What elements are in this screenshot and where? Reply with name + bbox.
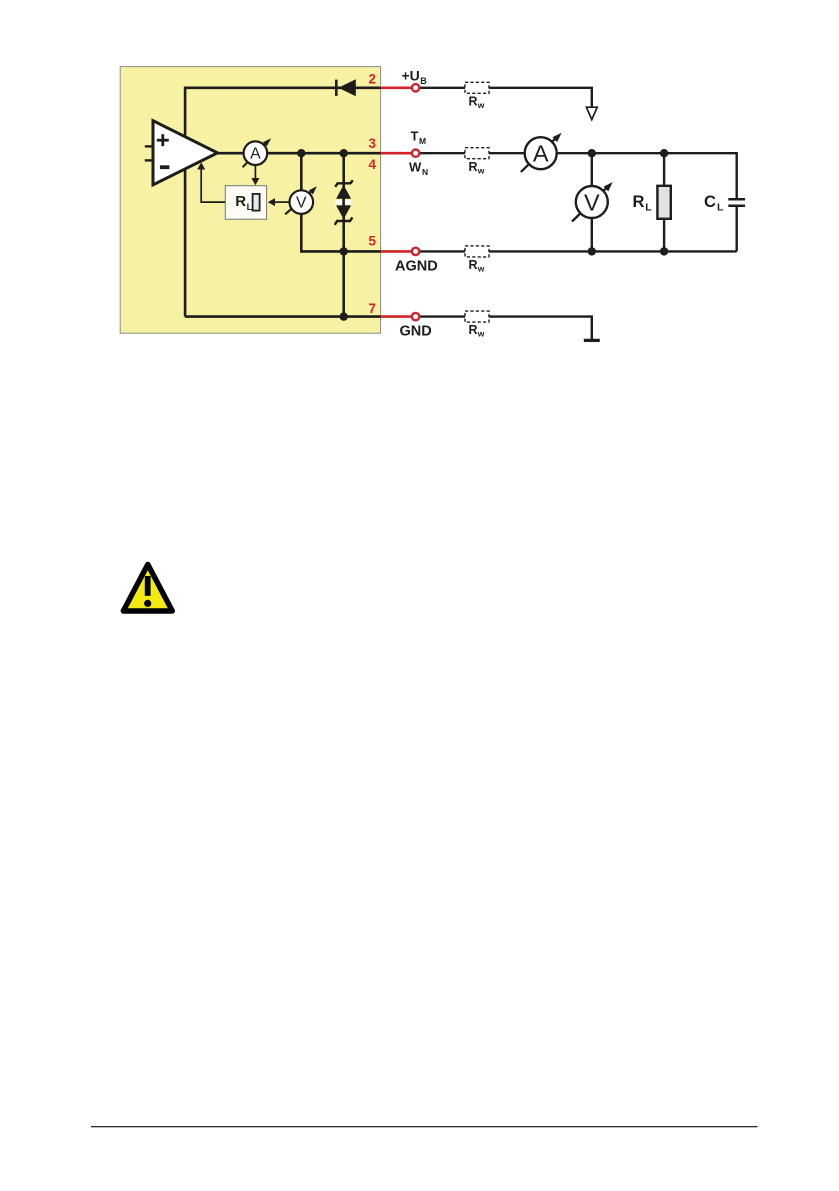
svg-text:R: R [469, 94, 478, 108]
svg-text:W: W [409, 160, 422, 175]
svg-text:A: A [533, 141, 549, 167]
svg-text:N: N [422, 167, 428, 177]
svg-text:GND: GND [400, 324, 432, 340]
svg-text:T: T [411, 129, 419, 144]
svg-text:+U: +U [402, 68, 420, 84]
svg-text:M: M [419, 136, 426, 146]
svg-text:V: V [296, 195, 307, 212]
svg-text:R: R [633, 193, 645, 211]
svg-text:R: R [235, 193, 246, 210]
svg-text:4: 4 [368, 157, 376, 172]
svg-text:2: 2 [368, 72, 376, 87]
svg-text:C: C [704, 193, 716, 211]
svg-text:V: V [584, 189, 600, 215]
svg-text:L: L [645, 202, 652, 214]
svg-text:w: w [477, 100, 485, 110]
svg-text:7: 7 [368, 301, 376, 316]
svg-text:R: R [469, 160, 478, 174]
svg-text:AGND: AGND [395, 259, 438, 275]
svg-text:R: R [469, 258, 478, 272]
svg-text:w: w [477, 264, 485, 274]
svg-text:5: 5 [368, 234, 376, 249]
svg-text:3: 3 [368, 136, 376, 151]
svg-text:B: B [420, 76, 427, 86]
svg-text:A: A [250, 146, 261, 163]
svg-text:w: w [477, 329, 485, 339]
svg-text:w: w [477, 165, 485, 175]
svg-text:R: R [469, 323, 478, 337]
svg-text:L: L [717, 202, 724, 214]
